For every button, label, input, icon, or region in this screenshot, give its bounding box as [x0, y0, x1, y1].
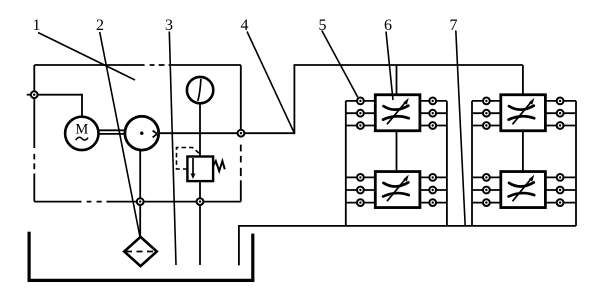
svg-text:4: 4: [241, 17, 249, 34]
svg-text:2: 2: [96, 17, 104, 34]
svg-text:6: 6: [384, 17, 392, 34]
svg-text:3: 3: [165, 17, 173, 34]
svg-text:7: 7: [450, 17, 458, 34]
svg-text:1: 1: [33, 17, 41, 34]
svg-text:M: M: [75, 122, 88, 138]
svg-text:5: 5: [319, 17, 327, 34]
